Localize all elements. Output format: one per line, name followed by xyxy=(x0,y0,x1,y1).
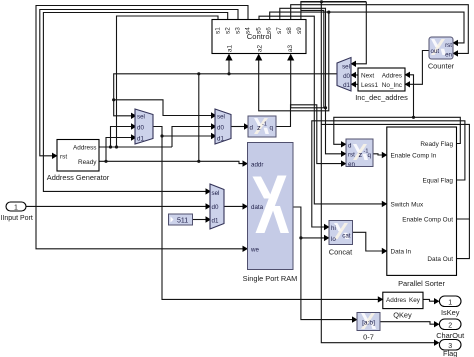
svg-text:Key: Key xyxy=(409,297,421,304)
block Single Port RAM U7 xyxy=(243,143,298,284)
arrowhead into register U4 rst xyxy=(341,151,347,157)
svg-text:d0: d0 xyxy=(217,124,224,131)
arrowhead into Switch Mux xyxy=(382,201,388,207)
wire mux M4 output branch to mux M2 sel xyxy=(114,100,212,116)
wire node a1 stub xyxy=(228,60,230,74)
input port 1 IInput Port xyxy=(1,202,33,222)
svg-text:s4: s4 xyxy=(245,27,252,34)
wire mux M4 output to mux M1 sel xyxy=(114,74,337,116)
svg-text:rst: rst xyxy=(348,152,355,159)
arrowhead into Address Generator rst xyxy=(52,153,58,159)
block slice U11 0-7 xyxy=(357,313,380,342)
junction Ready Flag to Addres xyxy=(412,116,415,119)
wire Equal Flag to Concat hi xyxy=(312,121,465,227)
block Control U1 xyxy=(212,20,306,54)
wire cluster vertical stub xyxy=(301,10,324,107)
block QKey U10 xyxy=(383,292,423,319)
wire Control s9 to mux M4 sel xyxy=(300,2,302,20)
junction link top xyxy=(197,72,200,75)
svg-text:a2: a2 xyxy=(257,44,264,52)
svg-text:sel: sel xyxy=(217,114,225,121)
arrowhead into mux M1 d0 xyxy=(131,123,137,129)
svg-text:s1: s1 xyxy=(215,27,222,34)
svg-text:QKey: QKey xyxy=(393,311,412,320)
wire RAM output down to slice xyxy=(293,207,353,320)
wire Address Generator Ready to RAM addr xyxy=(99,161,243,163)
svg-text:a3: a3 xyxy=(287,44,294,52)
wire Control s7 to register U4 rst xyxy=(280,8,342,154)
svg-text:cat: cat xyxy=(342,232,351,239)
svg-text:a1: a1 xyxy=(227,44,234,52)
svg-text:s6: s6 xyxy=(266,27,273,34)
svg-text:2: 2 xyxy=(448,323,452,330)
arrowhead into mux M3 sel xyxy=(206,188,212,194)
wire Enable Comp Out to output Flag xyxy=(321,124,469,342)
arrowhead into Counter en xyxy=(453,50,459,56)
arrowhead into RAM addr xyxy=(243,160,249,166)
svg-text:z: z xyxy=(257,123,261,132)
svg-text:hi: hi xyxy=(331,225,336,232)
wire s7 branch to Control a3 xyxy=(291,60,326,108)
arrowhead into Concat lo xyxy=(324,235,330,241)
svg-text:Addres: Addres xyxy=(382,73,402,80)
junction link bottom xyxy=(197,160,200,163)
svg-text:en: en xyxy=(445,52,452,59)
svg-text:d1: d1 xyxy=(212,217,219,224)
arrowhead into Concat hi xyxy=(324,224,330,230)
wire Control s5 to Parallel Sorter Switch Mux xyxy=(259,16,382,204)
block Counter U2 xyxy=(428,37,455,71)
wire Control s4 to RAM we xyxy=(36,6,248,249)
arrowhead into slice input xyxy=(352,316,358,322)
junction mux M4 output to selects xyxy=(112,98,115,101)
svg-text:Ready Flag: Ready Flag xyxy=(420,141,453,148)
svg-text:d: d xyxy=(348,142,352,149)
wire Address Generator Address output xyxy=(99,146,172,148)
arrowhead into mux M4 sel xyxy=(351,61,357,67)
arrowhead into mux M2 sel xyxy=(211,112,217,118)
arrowhead into mux M2 d1 xyxy=(211,133,217,139)
svg-text:Enable Comp In: Enable Comp In xyxy=(391,152,437,159)
svg-text:Address Generator: Address Generator xyxy=(47,173,110,182)
arrowhead into register U4 en xyxy=(341,160,347,166)
svg-text:Address: Address xyxy=(73,145,96,152)
svg-text:Next: Next xyxy=(361,73,374,80)
svg-text:1: 1 xyxy=(14,205,18,212)
arrowhead into Control a3 xyxy=(287,54,294,61)
junction Address to s1 riser xyxy=(115,145,118,148)
wire s6 branch to Control a2 xyxy=(259,12,329,111)
wire junction vertical link xyxy=(198,74,200,162)
svg-text:en: en xyxy=(348,161,355,168)
block Concat U8 xyxy=(329,221,353,257)
arrowhead into mux M1 d1 xyxy=(131,134,137,140)
svg-text:Switch Mux: Switch Mux xyxy=(391,201,424,208)
svg-text:Counter: Counter xyxy=(428,62,455,71)
wire Input Port to mux M3 d0 xyxy=(26,205,206,207)
wire mux M1 output to QKey Addres xyxy=(153,127,378,300)
svg-text:s8: s8 xyxy=(286,27,293,34)
svg-text:Data In: Data In xyxy=(391,248,412,255)
arrowhead into output CharOut xyxy=(434,321,440,327)
wire mux M2 output to delay U3 d xyxy=(231,126,245,128)
block register U4 rst z-1 en xyxy=(346,139,373,168)
arrowhead into output Flag xyxy=(434,340,440,346)
svg-text:1: 1 xyxy=(448,300,452,307)
svg-text:0-7: 0-7 xyxy=(363,333,374,342)
mux M2 xyxy=(215,109,231,144)
junction s7 branch to a3 xyxy=(324,106,327,109)
svg-text:d1: d1 xyxy=(343,82,350,89)
arrowhead into Control a2 xyxy=(255,54,262,61)
arrowhead into Addres xyxy=(405,72,411,78)
svg-text:q: q xyxy=(270,125,274,132)
svg-text:Addres: Addres xyxy=(386,297,406,304)
svg-text:Equal Flag: Equal Flag xyxy=(422,177,453,184)
svg-text:s7: s7 xyxy=(276,27,283,34)
arrowhead into mux M3 d1 xyxy=(206,216,212,222)
junction s9 branch xyxy=(320,0,323,3)
arrowhead into mux M1 sel xyxy=(131,113,137,119)
arrowhead into mux M4 d1 xyxy=(351,81,357,87)
svg-text:Enable Comp Out: Enable Comp Out xyxy=(402,216,453,223)
svg-text:sel: sel xyxy=(212,190,220,197)
svg-text:lo: lo xyxy=(331,236,336,243)
wire delay U3 q to register U4 en xyxy=(276,105,342,164)
arrowhead into mux M2 d0 xyxy=(211,123,217,129)
junction RAM output to Concat lo xyxy=(299,236,302,239)
block Parallel Sorter U9 xyxy=(387,127,457,288)
svg-text:CharOut: CharOut xyxy=(436,331,464,340)
svg-text:[a:b]: [a:b] xyxy=(362,320,375,327)
arrowhead into RAM data xyxy=(243,203,249,209)
svg-text:IsKey: IsKey xyxy=(441,308,460,317)
arrowhead into mux M4 d0 xyxy=(351,72,357,78)
svg-text:d0: d0 xyxy=(343,73,350,80)
arrowhead into delay U3 d xyxy=(244,123,250,129)
arrowhead into QKey Addres xyxy=(378,296,384,302)
block constant 511 xyxy=(169,214,193,225)
wire Data Out up xyxy=(457,219,470,259)
svg-text:Concat: Concat xyxy=(329,248,352,257)
wire Ready Flag to register U4 d xyxy=(334,117,461,144)
wire RAM output branch to Concat lo xyxy=(301,237,325,239)
svg-text:Flag: Flag xyxy=(443,349,457,357)
wire Control s6 to Counter rst xyxy=(270,12,464,43)
svg-text:rst: rst xyxy=(60,154,67,161)
svg-text:sel: sel xyxy=(137,114,145,121)
wire Control s2 to mux M3 sel xyxy=(43,13,227,192)
wire constant 511 to mux M3 d1 xyxy=(193,219,207,221)
wire mux M3 output to RAM data xyxy=(224,205,243,207)
block Address Generator U6 xyxy=(47,140,110,183)
svg-text:Data Out: Data Out xyxy=(427,256,453,263)
svg-text:sel: sel xyxy=(342,64,350,71)
wire mux M1 output branch to mux M2 d1 xyxy=(162,135,212,137)
output port 1 IsKey xyxy=(439,296,461,317)
wire QKey Key to output IsKey xyxy=(423,299,435,301)
wire Control s3 to Address Generator rst xyxy=(40,10,238,156)
svg-text:out: out xyxy=(431,48,440,55)
arrowhead into No_Inc xyxy=(405,81,411,87)
arrowhead into mux M3 d0 xyxy=(206,203,212,209)
svg-text:d0: d0 xyxy=(137,124,144,131)
svg-text:we: we xyxy=(250,247,259,254)
arrowhead into output IsKey xyxy=(434,298,440,304)
wire Address branch to mux M2 d0 xyxy=(172,127,212,148)
junction s6 branch xyxy=(327,11,330,14)
wire Ready branch to mux M1 d1 xyxy=(106,138,132,162)
wire Ready Flag branch to Inc_dec_addres Addres xyxy=(410,75,414,118)
svg-text:Less1: Less1 xyxy=(361,82,378,89)
svg-text:z: z xyxy=(359,150,363,159)
svg-text:s9: s9 xyxy=(296,27,303,34)
svg-text:q: q xyxy=(368,152,372,159)
wire register U4 q to Enable Comp In xyxy=(373,154,382,155)
svg-text:Ready: Ready xyxy=(78,159,97,166)
svg-text:rst: rst xyxy=(445,42,452,49)
svg-text:Parallel Sorter: Parallel Sorter xyxy=(398,279,445,288)
wire Inc_dec_addres Next to mux M4 d0 xyxy=(356,74,359,76)
arrowhead into RAM we xyxy=(243,246,249,252)
wire Concat cat to Parallel Sorter Data In xyxy=(353,232,383,251)
junction node a1 xyxy=(227,72,230,75)
arrowhead into Data In xyxy=(382,248,388,254)
output port 2 CharOut xyxy=(436,319,464,340)
mux M3 xyxy=(210,184,224,229)
wire s9 branch vertical xyxy=(320,2,322,125)
mux M1 xyxy=(135,109,153,144)
svg-text:511: 511 xyxy=(177,218,188,225)
wire Address up to Control s1 xyxy=(117,16,219,147)
svg-text:d: d xyxy=(250,125,254,132)
junction mux M1 output to mux M2 d1 xyxy=(160,134,163,137)
block Inc_dec_addres U5 xyxy=(355,68,408,102)
svg-text:Single Port RAM: Single Port RAM xyxy=(243,274,298,283)
block delay U3 z-1 xyxy=(248,116,276,137)
svg-text:d1: d1 xyxy=(217,135,224,142)
junction Address to mux M1 d0 xyxy=(109,145,112,148)
wire Counter out to Inc_dec_addres No_Inc xyxy=(410,51,430,85)
svg-text:-1: -1 xyxy=(262,122,267,128)
arrowhead into register U4 d xyxy=(341,141,347,147)
svg-text:addr: addr xyxy=(251,161,263,168)
svg-text:s3: s3 xyxy=(235,27,242,34)
svg-text:IInput Port: IInput Port xyxy=(1,215,33,222)
mux M4 (mirrored) xyxy=(337,58,351,92)
wire Address branch to mux M1 d0 xyxy=(111,127,132,148)
svg-text:d0: d0 xyxy=(212,204,219,211)
svg-text:d1: d1 xyxy=(137,135,144,142)
output port 3 Flag xyxy=(439,340,461,357)
svg-text:s5: s5 xyxy=(256,27,263,34)
arrowhead into Counter rst xyxy=(453,40,459,46)
svg-text:data: data xyxy=(251,204,264,211)
svg-text:No_Inc: No_Inc xyxy=(382,82,403,89)
wire slice output to output CharOut xyxy=(380,322,435,325)
arrowhead into Control a1 xyxy=(225,54,232,61)
wire Inc_dec_addres Less1 to mux M4 d1 xyxy=(356,83,359,85)
arrowhead into Enable Comp In xyxy=(382,152,388,158)
wire Control s8 to Counter en xyxy=(291,5,469,54)
svg-text:s2: s2 xyxy=(225,27,232,34)
svg-text:Inc_dec_addres: Inc_dec_addres xyxy=(355,93,408,102)
junction Ready to mux M1 d1 xyxy=(104,160,107,163)
